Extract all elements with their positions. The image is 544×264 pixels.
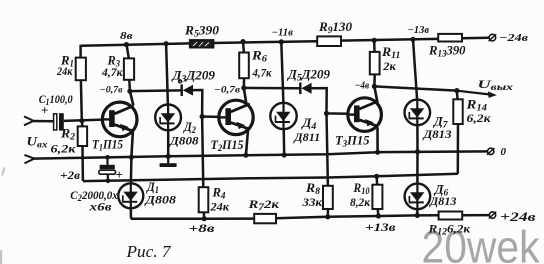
svg-text:х6в: х6в xyxy=(88,202,111,214)
node dot D4 on 0 rail xyxy=(282,152,287,157)
node dot D2/ground on 0 rail xyxy=(166,154,171,159)
svg-text:R13390: R13390 xyxy=(428,44,466,59)
node dot output corner xyxy=(454,88,459,93)
node dot D7/D6 on 0 rail xyxy=(415,149,420,154)
capacitor C1 100.0 xyxy=(54,114,57,130)
zener diode D2 D808 xyxy=(155,105,181,131)
node dot -13v (D7 column) xyxy=(410,37,415,42)
svg-text:Т2П15: Т2П15 xyxy=(211,138,244,153)
terminal -24v (slashed circle) xyxy=(489,34,496,41)
wire R11 top lead xyxy=(373,40,376,52)
svg-text:R5390: R5390 xyxy=(184,24,220,39)
wire T2 emitter down xyxy=(246,130,248,155)
svg-text:8,2к: 8,2к xyxy=(350,197,370,209)
node dot T1 collector xyxy=(127,89,132,94)
wire C2 bottom stem xyxy=(107,174,109,181)
wire R8 bottom lead xyxy=(327,209,330,217)
resistor R14 6.2k xyxy=(453,99,462,124)
node dot R10 top on feedback line xyxy=(374,174,379,179)
resistor R2 6.2k xyxy=(78,126,87,146)
resistor R1 24k xyxy=(76,58,86,81)
svg-text:−11в: −11в xyxy=(272,27,294,38)
svg-text:−0,7в: −0,7в xyxy=(100,85,123,95)
wire R6 top lead xyxy=(242,42,245,53)
svg-text:Т1П15: Т1П15 xyxy=(92,137,123,152)
resistor R10 8.2k xyxy=(372,185,382,209)
svg-text:Д811: Д811 xyxy=(293,130,320,144)
zener diode D7 D813 xyxy=(405,100,431,126)
wire feedback line (R2-C2-R10-R14 node) xyxy=(83,174,458,181)
wire D5 to T3 base (corner) xyxy=(312,88,349,114)
terminal +24v (slashed circle) xyxy=(489,212,495,218)
node dot T2 base / R4 top xyxy=(200,114,205,119)
node dot R3 top xyxy=(124,42,129,47)
wire top supply rail segment D (to -24v terminal) xyxy=(462,36,489,39)
svg-text:+13в: +13в xyxy=(365,220,396,234)
node dot D2 column top xyxy=(164,41,169,46)
svg-text:Рис. 7: Рис. 7 xyxy=(125,242,172,261)
svg-text:+24в: +24в xyxy=(500,209,536,224)
zener diode D4 D811 xyxy=(270,103,296,129)
wire common 0 rail xyxy=(33,151,489,158)
svg-text:R9130: R9130 xyxy=(318,20,353,35)
wire D1 bottom to +8v rail xyxy=(130,208,133,219)
resistor R12 6.2k (series) xyxy=(439,212,463,220)
transistor T3 P15 xyxy=(348,98,382,132)
wire R4 column from T2 base xyxy=(202,117,203,188)
node dot T3 emitter on 0 rail xyxy=(375,150,380,155)
svg-text:R14: R14 xyxy=(465,97,487,112)
resistor R5 390 (series, dark) xyxy=(190,40,214,48)
wire D7 column from -13v node xyxy=(413,39,417,99)
wire D4 bottom to common rail xyxy=(282,129,285,155)
svg-text:R2: R2 xyxy=(60,127,76,142)
wire T1 collector to D3 xyxy=(130,89,181,92)
svg-text:Д4: Д4 xyxy=(301,116,317,131)
node dot T2 emitter on 0 rail xyxy=(243,153,248,158)
svg-text:Uвх: Uвх xyxy=(27,134,48,150)
svg-text:0: 0 xyxy=(501,146,507,158)
wire R3 top lead xyxy=(127,45,129,59)
svg-text:−4в: −4в xyxy=(355,80,370,91)
node dot R4 bottom xyxy=(202,216,207,221)
wire R2 bottom lead down to feedback line xyxy=(81,146,84,181)
wire R10 top lead xyxy=(375,176,378,184)
wire R14 bottom lead to feedback line xyxy=(457,124,460,174)
wire R2 top lead xyxy=(81,121,84,127)
wire T3 emitter down xyxy=(376,127,379,152)
wire top supply rail segment B (-11v net) xyxy=(214,41,318,43)
output arrow Uvyh xyxy=(457,91,489,95)
zener diode D1 D808 xyxy=(118,183,143,208)
svg-text:Д5Д209: Д5Д209 xyxy=(287,68,330,83)
wire +13v rail xyxy=(276,215,439,218)
svg-text:R72к: R72к xyxy=(247,197,280,212)
input arrow lower xyxy=(25,155,35,159)
node dot C2 bottom on feedback line xyxy=(106,179,111,184)
wire to +24v terminal xyxy=(462,214,489,217)
stray small circle above D3 xyxy=(179,80,182,83)
node dot D6 bottom xyxy=(415,213,420,218)
wire C1 to T1 base xyxy=(64,120,103,121)
wire D4 column from -11v node xyxy=(281,42,283,103)
node dot T3 base / R8 top xyxy=(324,111,329,116)
svg-text:+: + xyxy=(41,103,48,118)
wire T3 collector xyxy=(374,86,377,101)
wire T1 emitter to D1 xyxy=(130,157,133,183)
resistor R11 2k xyxy=(370,52,380,75)
wire top supply rail segment A (8v net) xyxy=(81,43,190,45)
resistor R4 24k xyxy=(199,187,209,212)
scan smudges (decorative) xyxy=(0,167,6,264)
node dot R6 top xyxy=(240,39,245,44)
wire C2 top stem xyxy=(106,157,108,165)
resistor R7 2k (series) xyxy=(254,214,276,223)
ground symbol xyxy=(167,156,169,163)
terminal 0 (slashed circle) xyxy=(488,148,494,154)
node dot R10 bottom xyxy=(376,213,381,218)
svg-text:+2в: +2в xyxy=(60,170,80,182)
svg-text:6,2к: 6,2к xyxy=(467,113,491,125)
svg-text:−24в: −24в xyxy=(499,32,528,44)
node dot T1 emitter on 0 rail xyxy=(129,155,134,160)
diode D3 D209 xyxy=(181,84,194,96)
svg-text:−0,7в: −0,7в xyxy=(214,85,241,95)
wire R4 bottom lead xyxy=(203,212,206,218)
svg-text:R6: R6 xyxy=(251,49,268,64)
wire top supply rail segment C (-13v net) xyxy=(341,39,438,41)
wire R3 bottom lead xyxy=(128,80,131,91)
wire R1 top lead xyxy=(79,45,82,58)
node dot C2 top on 0 rail xyxy=(105,155,110,160)
node dot T2 collector xyxy=(241,85,246,90)
svg-text:R4: R4 xyxy=(211,185,226,200)
svg-text:2к: 2к xyxy=(382,61,396,73)
wire D6 bottom to +13v rail xyxy=(416,209,419,215)
wire T3 collector to output corner xyxy=(374,86,457,90)
transistor T2 P15 xyxy=(219,100,253,134)
svg-text:R10: R10 xyxy=(353,181,370,196)
svg-text:Д808: Д808 xyxy=(169,133,199,147)
svg-text:R126,2к: R126,2к xyxy=(427,222,471,237)
input arrow upper xyxy=(24,116,34,121)
node dot -11v (D4 column) xyxy=(279,39,284,44)
svg-text:Д3Д209: Д3Д209 xyxy=(171,69,215,84)
svg-text:24к: 24к xyxy=(56,66,73,78)
wire T2 collector node to D5 xyxy=(244,87,300,90)
svg-text:R8: R8 xyxy=(305,181,321,196)
zener diode D6 D813 xyxy=(405,184,431,210)
resistor R9 130 xyxy=(317,36,341,46)
svg-text:−13в: −13в xyxy=(408,25,430,36)
svg-text:Т3П15: Т3П15 xyxy=(335,133,370,148)
svg-text:6,2к: 6,2к xyxy=(51,144,76,156)
wire input to C1 xyxy=(33,120,55,123)
resistor R6 4.7k xyxy=(239,53,249,79)
wire D3 to T2 base (corner) xyxy=(193,90,220,117)
svg-text:4,7к: 4,7к xyxy=(101,67,123,79)
svg-text:R3: R3 xyxy=(107,52,121,68)
wire R1 bottom lead xyxy=(80,80,83,121)
node dot R1/R2 at base wire xyxy=(79,118,84,123)
capacitor C2 2000.0 x 6v xyxy=(100,165,115,169)
wire D6 top from common rail xyxy=(416,152,419,184)
svg-text:R11: R11 xyxy=(381,45,401,60)
node dot R11 top xyxy=(372,38,377,43)
resistor R3 4.7k xyxy=(124,58,134,79)
wire T1 emitter down xyxy=(131,131,133,157)
svg-text:Д2: Д2 xyxy=(183,120,196,135)
resistor R8 33k xyxy=(323,186,333,209)
svg-text:С22000,0х: С22000,0х xyxy=(70,189,118,203)
wire R8 column from T3 base xyxy=(327,113,328,185)
svg-text:8в: 8в xyxy=(120,30,133,42)
node dot R8 bottom xyxy=(325,214,330,219)
wire R14 top lead xyxy=(456,91,459,100)
svg-text:Д813: Д813 xyxy=(429,194,457,208)
wire D7 bottom to common rail xyxy=(416,125,419,152)
wire R6 bottom lead xyxy=(243,78,246,88)
wire T1 collector up xyxy=(130,91,133,105)
svg-text:Uвых: Uвых xyxy=(478,77,514,92)
svg-text:Д813: Д813 xyxy=(422,127,451,141)
wire D2 bottom to common rail xyxy=(167,130,170,156)
wire D2 column from top rail xyxy=(166,44,168,105)
wire R11 bottom lead xyxy=(373,74,376,86)
svg-text:Д808: Д808 xyxy=(144,193,176,207)
node dot T3 collector xyxy=(372,84,377,89)
diode D5 D209 xyxy=(299,83,312,95)
resistor R13 390 xyxy=(438,34,462,42)
wire +8v rail xyxy=(131,217,254,220)
transistor T1 P15 xyxy=(102,102,137,137)
wire T2 collector xyxy=(244,88,247,104)
svg-text:4,7к: 4,7к xyxy=(252,67,272,79)
svg-text:33к: 33к xyxy=(301,197,322,209)
svg-text:24к: 24к xyxy=(209,202,229,214)
wire R10 bottom lead xyxy=(376,209,379,216)
svg-text:+8в: +8в xyxy=(189,221,216,235)
